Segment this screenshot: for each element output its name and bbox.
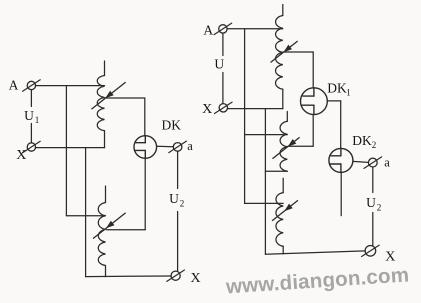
svg-text:DK: DK (162, 118, 182, 133)
svg-text:A: A (203, 22, 213, 37)
svg-text:2: 2 (377, 203, 382, 213)
svg-text:X: X (385, 250, 395, 265)
svg-text:U: U (366, 195, 376, 210)
svg-text:2: 2 (372, 140, 377, 150)
svg-text:a: a (187, 139, 193, 153)
svg-text:U: U (214, 57, 224, 72)
svg-text:A: A (9, 78, 19, 93)
svg-text:X: X (202, 102, 212, 117)
svg-text:a: a (384, 155, 390, 169)
svg-text:www.diangon.com: www.diangon.com (224, 263, 410, 298)
svg-text:DK: DK (352, 133, 372, 148)
svg-text:DK: DK (327, 81, 347, 96)
svg-text:X: X (16, 148, 26, 163)
svg-text:X: X (190, 271, 200, 286)
svg-text:U: U (169, 191, 179, 206)
svg-text:1: 1 (346, 88, 351, 98)
svg-text:U: U (24, 108, 34, 123)
svg-text:2: 2 (180, 199, 185, 209)
svg-text:1: 1 (35, 115, 40, 125)
